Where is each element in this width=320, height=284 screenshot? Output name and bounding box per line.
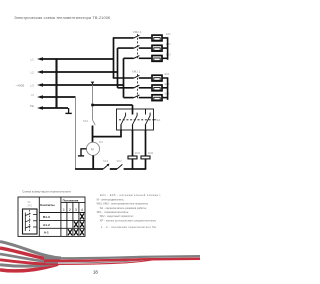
wire SA out2 to KM1 coil (132, 130, 134, 156)
svg-text:М - электродвигатель;: М - электродвигатель; (97, 197, 125, 201)
contact KM1.1a (134, 75, 140, 78)
contactor KM2.1 dashed link (137, 34, 139, 60)
svg-text:Контакты: Контакты (40, 203, 55, 207)
svg-text:В1-3: В1-3 (43, 215, 50, 219)
svg-text:м: м (91, 147, 94, 152)
switch SA contact 3 (146, 109, 151, 130)
svg-text:2: 2 (69, 208, 71, 212)
svg-text:КМ1: КМ1 (135, 151, 141, 155)
wire group1 row2 (118, 47, 134, 49)
svg-text:L2: L2 (31, 70, 35, 74)
svg-text:ЕК1 - ЕК6 - нагревательный э: ЕК1 - ЕК6 - нагревательный элемент; (100, 193, 161, 197)
svg-text:1: 1 (63, 208, 65, 212)
svg-text:SK2: SK2 (103, 159, 109, 163)
wire motor bottom drop (92, 155, 94, 169)
svg-text:Положения: Положения (63, 198, 79, 202)
heater EK1 (152, 35, 162, 41)
node L3 tap arrow (91, 82, 95, 85)
svg-text:Электрическая схема тепловенти: Электрическая схема тепловентилятора ТВ-… (14, 16, 111, 20)
contact KM1.1b (134, 85, 140, 88)
decorative stripe fan gray 5 (0, 264, 56, 267)
contact KM2.1a (134, 35, 140, 38)
svg-text:SA - переключатель режимов р: SA - переключатель режимов работы; (100, 206, 148, 210)
svg-text:КМ1, КМ2 - электромагнитные: КМ1, КМ2 - электромагнитные пускатели; (97, 202, 149, 206)
svg-text:1 - 4 - положения переключат: 1 - 4 - положения переключателя SA. (101, 225, 157, 229)
wire motor left to chassis (78, 149, 87, 156)
contact KM2.1c (134, 56, 140, 59)
svg-text:ЕК1: ЕК1 (166, 32, 171, 36)
wire KM2 coil bottom (145, 159, 147, 169)
svg-text:КМ2: КМ2 (148, 151, 154, 155)
svg-text:SK1 - термовыключатель;: SK1 - термовыключатель; (97, 210, 129, 214)
coil KM2 (141, 156, 150, 159)
wire L1 vertical drop (55, 58, 57, 108)
wire bottom return segment 3 (124, 168, 147, 170)
wire bottom return segment 1 (75, 168, 103, 170)
table grid (18, 197, 85, 236)
wire PE (40, 107, 68, 109)
switch SA link dashed (119, 119, 154, 121)
contact SK2 (103, 164, 108, 169)
heater EK3 (152, 56, 162, 62)
wire bottom return segment 2 (110, 168, 117, 170)
wire L2 (40, 71, 118, 73)
table switch symbol (23, 209, 38, 234)
wire group1 row3 to EK3 (139, 57, 151, 59)
wire group1 row1 to EK1 (139, 37, 151, 39)
heater EK4 (152, 75, 162, 81)
decorative stripe flat red main (44, 259, 200, 261)
wire SA out1 to motor (93, 130, 122, 137)
table X marks (68, 214, 83, 235)
decorative stripe fan red 6 (0, 264, 58, 271)
decorative stripe flat gray thin (46, 260, 148, 263)
svg-text:ХР - вилка штепсельная соеди: ХР - вилка штепсельная соединительная; (100, 218, 157, 222)
svg-text:18: 18 (93, 270, 98, 275)
svg-text:L3: L3 (31, 83, 35, 87)
svg-text:КМ2.1: КМ2.1 (133, 30, 142, 34)
heater EK2 (152, 45, 162, 51)
wire N (40, 96, 76, 98)
wire riser C (123, 58, 125, 97)
decorative stripe fan gray 1 (0, 242, 61, 258)
wire group1 star bus (162, 38, 168, 60)
svg-text:КМ1.1: КМ1.1 (132, 70, 141, 74)
wire SA top stub (132, 105, 134, 115)
wire group2 row1 (113, 77, 134, 79)
svg-text:~400В: ~400В (16, 83, 25, 87)
switch SA label (154, 119, 156, 121)
svg-text:ХР1: ХР1 (28, 206, 33, 208)
wire group2 star bus (162, 78, 168, 100)
node PE arrow (37, 106, 43, 110)
svg-text:4: 4 (81, 208, 83, 212)
wire group1 row2 to EK2 (139, 47, 151, 49)
svg-text:ЕК2: ЕК2 (166, 42, 171, 46)
contact SK1 (93, 120, 96, 143)
node N arrow (37, 95, 43, 99)
wire group2 row3 (124, 97, 134, 99)
decorative stripe fan red 4 (0, 260, 58, 264)
wire group2 row1 to EK4 (139, 77, 151, 79)
motor M1 (86, 142, 99, 155)
contact SK3 (117, 164, 122, 169)
wire SA out3 to KM2 coil (145, 130, 147, 156)
wire group1 row3 (124, 57, 134, 59)
wire group1 row1 (113, 37, 134, 39)
heater EK5 (152, 85, 162, 91)
svg-text:SA: SA (28, 201, 32, 204)
decorative stripe fan gray 3 (0, 254, 58, 262)
contactor KM1.1 dashed link (137, 74, 139, 99)
wire L3 tap drop (92, 85, 94, 120)
wire group2 row2 (118, 87, 134, 89)
switch SA contact 2 (133, 113, 138, 130)
switch SA body (117, 109, 154, 130)
svg-text:3: 3 (75, 208, 77, 212)
svg-text:А-1: А-1 (44, 231, 49, 235)
svg-text:SK2 - защитный термостат;: SK2 - защитный термостат; (100, 214, 135, 218)
svg-text:SA: SA (156, 118, 160, 122)
svg-text:SK1: SK1 (83, 119, 89, 123)
svg-text:SK2: SK2 (117, 159, 123, 163)
decorative stripe fan red 2 (0, 248, 60, 260)
ground PE chassis (65, 108, 71, 113)
wire group2 row3 to EK6 (139, 97, 151, 99)
svg-text:ЕК3: ЕК3 (166, 52, 171, 56)
wire L1 (40, 58, 114, 60)
wire riser A (113, 38, 115, 78)
decorative stripe flat red thin (46, 260, 152, 264)
contact KM1.1c (134, 95, 140, 98)
table header positions 1 2 3 4 (63, 208, 83, 212)
wire riser B (117, 48, 119, 88)
node L2 arrow (37, 70, 43, 74)
svg-text:ЕК4: ЕК4 (165, 72, 170, 76)
decorative stripe flat gray main (44, 256, 200, 258)
wire KM1 coil bottom (132, 159, 134, 169)
node junction dot (91, 104, 94, 107)
svg-text:PE: PE (30, 104, 34, 108)
heater EK6 (152, 95, 162, 101)
svg-text:L1: L1 (31, 57, 35, 61)
node L3 arrow (37, 83, 43, 87)
switch SA contact 1 (121, 113, 126, 130)
svg-text:N: N (32, 93, 34, 97)
wire L3 (40, 84, 124, 86)
svg-text:M1: M1 (99, 140, 103, 144)
wire group2 row2 to EK5 (139, 87, 151, 89)
node L1 arrow (37, 57, 43, 61)
svg-text:Схема коммутации переключателя: Схема коммутации переключателя (22, 190, 71, 194)
wire N drop (75, 97, 77, 169)
wire node to SA (93, 104, 133, 106)
coil KM1 (128, 156, 137, 159)
svg-text:А1-2: А1-2 (43, 223, 50, 227)
contact KM2.1b (134, 45, 140, 48)
